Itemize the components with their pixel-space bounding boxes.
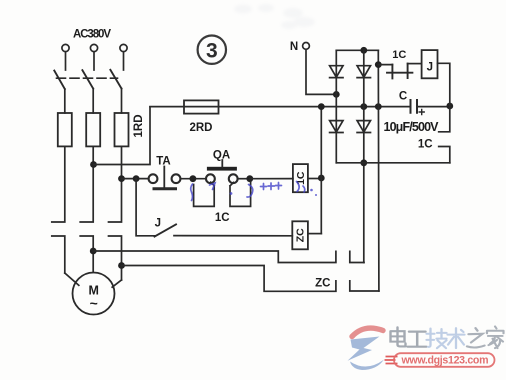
- terminal L2: [90, 44, 97, 51]
- wire (motor lead 3): [112, 280, 121, 287]
- char 电: [391, 327, 406, 346]
- wire (motor lead 1): [65, 273, 79, 285]
- svg-text:TA: TA: [156, 156, 170, 168]
- wire: [94, 107, 151, 165]
- node: [90, 161, 97, 168]
- relay contact J: [155, 224, 177, 236]
- svg-text:AC380V: AC380V: [73, 29, 111, 41]
- capacitor C: [411, 100, 418, 113]
- watermark logo 电工技术之家: [348, 328, 385, 370]
- wire: [335, 50, 337, 163]
- char 技: [427, 329, 447, 349]
- svg-text:www.dgjs123.com: www.dgjs123.com: [401, 355, 489, 367]
- switch QS pole 2 blade: [82, 70, 93, 88]
- node: [190, 175, 197, 182]
- node: [246, 175, 253, 182]
- node: [118, 262, 125, 269]
- wire (bridge top rail): [336, 49, 378, 51]
- svg-text:N: N: [290, 41, 298, 53]
- node: [375, 61, 382, 68]
- wire B (to ZC contact rail 2): [122, 266, 336, 292]
- relay coil 1C: [293, 164, 308, 192]
- node: [360, 47, 367, 54]
- wire: [306, 49, 334, 94]
- fuse 1RD phase 3: [115, 113, 129, 146]
- wire: [64, 89, 66, 113]
- icon red arc: [352, 328, 383, 336]
- wire: [238, 178, 250, 180]
- wire (bus right of C): [417, 106, 450, 108]
- faint smudges: [234, 4, 315, 29]
- svg-text:ZC: ZC: [315, 278, 330, 290]
- wire: [65, 52, 67, 70]
- wire A (to ZC contact rail 1): [93, 251, 336, 263]
- char 之: [467, 328, 485, 347]
- svg-text:ZC: ZC: [295, 228, 307, 242]
- wire: [320, 107, 322, 234]
- diode D3: [330, 121, 343, 133]
- svg-text:3: 3: [206, 40, 218, 63]
- wire: [308, 233, 321, 235]
- switch QS pole 1 blade: [54, 71, 65, 89]
- watermark url pill: [385, 353, 495, 367]
- svg-text:1RD: 1RD: [133, 114, 145, 137]
- node: [133, 175, 140, 182]
- svg-text:J: J: [155, 218, 161, 230]
- wire: [174, 235, 292, 237]
- node: [90, 248, 97, 255]
- blue watermark scribbles: [191, 182, 317, 201]
- wire: [408, 63, 422, 65]
- svg-text:C: C: [399, 91, 407, 103]
- svg-text:10μF/500V: 10μF/500V: [384, 120, 440, 134]
- wire: [438, 63, 450, 106]
- switch linkage: [57, 77, 118, 79]
- node: [318, 103, 325, 110]
- svg-text:J: J: [427, 62, 433, 74]
- contact 1C top: [387, 64, 412, 79]
- fuse 2RD: [184, 100, 219, 113]
- svg-text:QA: QA: [213, 150, 230, 162]
- node: [360, 159, 367, 166]
- motor M: [73, 273, 115, 315]
- polarity +: [419, 110, 424, 115]
- contact ZC rail 1 right: [350, 251, 364, 262]
- contact ZC rail 2 right: [350, 281, 379, 291]
- wire: [378, 64, 392, 66]
- relay coil ZC: [292, 221, 308, 249]
- terminal L3: [120, 44, 127, 51]
- wire: [180, 178, 206, 180]
- terminal N: [303, 43, 310, 50]
- wire: [363, 163, 365, 263]
- char 工: [408, 332, 427, 347]
- contact 1C self-holding right: [230, 182, 251, 207]
- relay coil J: [422, 50, 438, 78]
- switch QS pole 3 blade: [110, 70, 121, 89]
- node: [118, 175, 125, 182]
- contactor ZC main contact phase 2: [80, 146, 93, 272]
- contact 1C lower right: [439, 106, 450, 163]
- contactor ZC main contact phase 3: [109, 146, 122, 280]
- svg-text:1C: 1C: [215, 212, 230, 224]
- circled number 3: [198, 36, 226, 64]
- diode D4: [357, 121, 370, 133]
- wire: [93, 52, 95, 70]
- fuse 1RD phase 1: [58, 113, 72, 146]
- node: [333, 91, 340, 98]
- wire: [250, 178, 293, 180]
- char 家: [487, 326, 504, 348]
- svg-text:1C: 1C: [392, 49, 406, 61]
- svg-text:2RD: 2RD: [189, 122, 212, 134]
- wire: [363, 50, 365, 163]
- wire: [123, 52, 125, 70]
- wire (bridge bottom rail): [336, 162, 450, 164]
- wire: [92, 89, 94, 113]
- diode D1: [330, 66, 343, 78]
- contactor ZC main contact phase 1: [52, 146, 65, 273]
- icon blue swoosh: [350, 360, 384, 371]
- wire: [121, 89, 123, 113]
- pushbutton QA (start): [206, 160, 238, 183]
- diode D2: [357, 66, 370, 78]
- fuse 1RD phase 2: [86, 113, 100, 146]
- wire (J branch): [136, 179, 155, 236]
- wire (bus): [150, 106, 411, 108]
- char 术: [448, 328, 465, 348]
- wire (control row start): [122, 178, 149, 180]
- icon blue lightning: [348, 337, 380, 361]
- wire: [308, 178, 321, 180]
- node: [360, 103, 367, 110]
- terminal L1: [62, 44, 69, 51]
- node: [375, 103, 382, 110]
- pushbutton TA (stop): [149, 167, 181, 189]
- contact 1C self-holding left: [194, 182, 215, 206]
- node: [318, 175, 325, 182]
- node: [446, 103, 453, 110]
- svg-text:~: ~: [90, 295, 98, 311]
- wire (right rail): [377, 50, 380, 291]
- svg-text:1C: 1C: [418, 139, 433, 151]
